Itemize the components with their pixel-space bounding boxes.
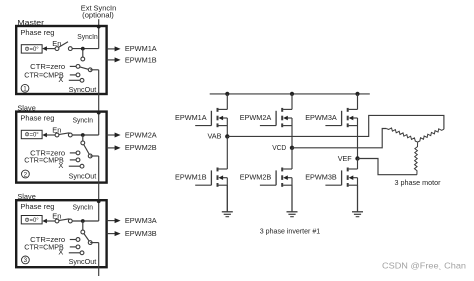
switch En contact circles U3: [55, 219, 59, 223]
wire SyncOut ePWM3 to next module: [98, 243, 100, 276]
switch En contact circles U1: [55, 47, 59, 51]
wire output EPWM3A: [107, 220, 115, 222]
wire SyncOut from common U1: [90, 69, 99, 71]
switch sync-select blade U2: [83, 143, 90, 156]
svg-text:SyncOut: SyncOut: [69, 85, 97, 94]
wire CTR=zero stub U3: [70, 239, 76, 241]
switch sync-select common contact U2: [88, 154, 92, 158]
switch sync-select blade U3: [83, 232, 90, 243]
ground column 2: [291, 185, 293, 211]
svg-text:X: X: [58, 75, 63, 84]
ground column 1: [226, 185, 228, 211]
wire output EPWM1B: [107, 59, 115, 61]
wire En switch to SyncIn junction U1: [70, 48, 98, 50]
wire junction to selector top contact U3: [82, 221, 84, 232]
wire output EPWM1A: [107, 48, 115, 50]
svg-text:EPWM1A: EPWM1A: [125, 44, 157, 53]
switch En contact circles U2: [55, 133, 59, 137]
wire VCD to motor left winding: [292, 129, 386, 148]
wire SyncOut ePWM1 to SyncIn ePWM2: [98, 70, 100, 135]
wire X stub U1: [69, 79, 80, 81]
node VAB dot: [225, 134, 229, 138]
wire SyncOut ePWM2 to SyncIn ePWM3: [98, 156, 100, 221]
wire En switch to SyncIn junction U2: [70, 134, 98, 136]
junction dot SyncIn U1: [81, 47, 85, 51]
svg-text:(optional): (optional): [82, 10, 114, 19]
ePWM module 3 box U3: [16, 200, 106, 267]
junction dot DC bus column 2: [290, 92, 294, 96]
svg-text:SyncIn: SyncIn: [73, 116, 93, 125]
node VEF dot: [355, 156, 359, 160]
wire VEF to motor bottom winding: [358, 159, 417, 175]
svg-text:SyncOut: SyncOut: [69, 257, 97, 266]
phase register box U3: [21, 216, 42, 224]
junction dot SyncIn U3: [81, 219, 85, 223]
svg-text:2: 2: [24, 171, 28, 178]
switch sync-select contacts U1: [81, 57, 85, 61]
wire En row with arrowhead into phase reg U3: [46, 220, 57, 222]
svg-text:VCD: VCD: [272, 143, 286, 152]
wire SyncOut from common U3: [90, 242, 99, 244]
svg-text:EPWM2A: EPWM2A: [125, 130, 157, 139]
svg-text:EPWM1A: EPWM1A: [175, 113, 207, 122]
junction dot SyncIn U2: [81, 133, 85, 137]
svg-text:VAB: VAB: [208, 132, 222, 141]
wire Ext SyncIn vertical into ePWM1: [98, 19, 100, 48]
svg-text:SyncIn: SyncIn: [77, 32, 97, 41]
transistor Q2 (EPWM1B): [226, 136, 228, 169]
transistor Q5 (EPWM3A): [357, 94, 359, 110]
svg-text:EPWM3B: EPWM3B: [305, 173, 337, 182]
module number 3 circled: [22, 256, 30, 264]
switch En blade U1: [58, 42, 68, 48]
svg-text:EPWM3B: EPWM3B: [125, 229, 157, 238]
wire SyncOut from common U2: [90, 155, 99, 157]
wire X stub U3: [69, 252, 80, 254]
wire output EPWM2B: [107, 147, 115, 149]
transistor Q4 (EPWM2B): [291, 148, 293, 169]
wire X stub U2: [69, 165, 80, 167]
svg-text:X: X: [58, 161, 63, 170]
svg-text:EPWM2B: EPWM2B: [125, 143, 157, 152]
svg-text:EPWM3A: EPWM3A: [125, 216, 157, 225]
wire DC bus rail: [210, 93, 370, 95]
node VCD dot: [290, 146, 294, 150]
junction dot DC bus column 1: [225, 92, 229, 96]
svg-text:3 phase motor: 3 phase motor: [395, 178, 442, 187]
wire CTR=CMPB stub U1: [70, 74, 76, 76]
wire output EPWM3B: [107, 233, 115, 235]
wire junction to selector top contact U1: [82, 49, 84, 59]
switch sync-select common contact U3: [88, 241, 92, 245]
switch En blade U3: [59, 219, 70, 221]
ePWM module 2 box U2: [16, 112, 106, 183]
junction dot ePWM2 SyncIn border crossing: [97, 111, 101, 115]
svg-text:EPWM3A: EPWM3A: [305, 113, 337, 122]
ground column 3: [357, 185, 359, 211]
junction dot ePWM1 SyncIn border crossing: [97, 25, 101, 29]
phase register box U1: [21, 45, 42, 53]
transistor Q3 (EPWM2A): [291, 94, 293, 110]
module number 2 circled: [22, 170, 30, 178]
svg-text:3: 3: [24, 257, 28, 264]
svg-text:Phase reg: Phase reg: [20, 202, 54, 211]
junction dot ePWM3 SyncIn border crossing: [97, 199, 101, 203]
svg-text:Φ=0°: Φ=0°: [25, 133, 40, 139]
wire output EPWM2A: [107, 134, 115, 136]
module number 1 circled: [21, 84, 29, 92]
svg-text:EPWM1B: EPWM1B: [175, 173, 207, 182]
wire VAB to motor right winding: [227, 115, 444, 136]
wire En row with arrowhead into phase reg U1: [46, 48, 57, 50]
wire CTR=CMPB stub U3: [70, 246, 76, 248]
svg-text:EPWM2B: EPWM2B: [240, 173, 272, 182]
svg-text:Phase reg: Phase reg: [20, 28, 54, 37]
wire En row with arrowhead into phase reg U2: [46, 134, 57, 136]
inductor motor winding bottom phase: [414, 142, 417, 175]
svg-text:SyncIn: SyncIn: [73, 202, 93, 211]
svg-text:CSDN @Freeˎ Chan: CSDN @Freeˎ Chan: [382, 261, 466, 271]
switch sync-select contacts U2: [81, 141, 85, 145]
svg-text:VEF: VEF: [338, 154, 352, 163]
transistor Q6 (EPWM3B): [357, 159, 359, 170]
svg-text:SyncOut: SyncOut: [69, 172, 97, 181]
wire CTR=CMPB stub U2: [70, 159, 76, 161]
ePWM module 1 box U1: [16, 26, 106, 94]
wire junction to selector top contact U2: [82, 135, 84, 143]
svg-text:Φ=0°: Φ=0°: [25, 47, 40, 53]
svg-text:1: 1: [23, 86, 27, 93]
wire CTR=zero stub U1: [70, 65, 76, 67]
switch sync-select blade U1: [78, 66, 90, 69]
wire CTR=zero stub U2: [70, 152, 76, 154]
switch En blade U2: [59, 133, 70, 135]
inductor motor winding right phase: [418, 129, 444, 142]
switch sync-select contacts U3: [81, 230, 85, 234]
svg-text:Phase reg: Phase reg: [20, 114, 54, 123]
svg-text:EPWM1B: EPWM1B: [125, 56, 157, 65]
wire En switch to SyncIn junction U3: [70, 220, 98, 222]
transistor Q1 (EPWM1A): [226, 94, 228, 110]
svg-text:Φ=0°: Φ=0°: [25, 218, 40, 224]
phase register box U2: [21, 130, 42, 138]
svg-text:EPWM2A: EPWM2A: [240, 113, 272, 122]
switch sync-select common contact U1: [88, 68, 92, 72]
svg-text:X: X: [58, 247, 63, 256]
svg-text:3 phase inverter #1: 3 phase inverter #1: [260, 227, 320, 236]
junction dot DC bus column 3: [355, 92, 359, 96]
inductor motor winding left phase: [386, 128, 417, 142]
